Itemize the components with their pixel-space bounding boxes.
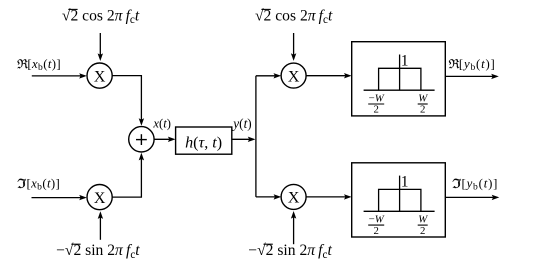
- svg-text:X: X: [94, 190, 106, 207]
- svg-text:X: X: [288, 68, 300, 85]
- wire hbox-to-junction: [232, 137, 256, 142]
- block lowpass-bottom: ideal lowpass, rect from -W/2 to W/2, height 1: [352, 163, 446, 237]
- svg-text:X: X: [288, 190, 300, 207]
- multiplier M3 (X) top-right: [281, 63, 306, 88]
- svg-text:−√2 sin 2π fct: −√2 sin 2π fct: [56, 242, 140, 261]
- wire carrier-sin-into-M4: [291, 211, 296, 244]
- svg-text:X: X: [94, 68, 106, 85]
- svg-text:h(τ, t): h(τ, t): [185, 135, 222, 152]
- wire carrier-sin-into-M2: [98, 211, 103, 240]
- adder (+): [129, 127, 154, 152]
- wire M4-to-filter: [306, 194, 352, 199]
- svg-text:[xb(t)]: [xb(t)]: [27, 177, 61, 193]
- wire junction vertical: [255, 76, 257, 197]
- wire M3-to-filter: [306, 73, 352, 78]
- svg-text:2: 2: [420, 104, 425, 116]
- svg-text:√2 cos 2π fct: √2 cos 2π fct: [255, 7, 333, 26]
- wire adder-to-hbox: [154, 137, 175, 142]
- wire Re-input-into-M1: [32, 73, 87, 78]
- multiplier M2 (X) bottom-left: [87, 185, 112, 210]
- svg-text:−√2 sin 2π fct: −√2 sin 2π fct: [248, 242, 332, 261]
- wire Im-input-into-M2: [32, 195, 87, 200]
- label Im-xb-input: [18, 177, 60, 193]
- svg-text:[xb(t)]: [xb(t)]: [27, 57, 61, 73]
- label y(t): [231, 116, 251, 131]
- label Im-yb-output: [453, 177, 499, 193]
- svg-text:y(t): y(t): [231, 116, 251, 131]
- svg-text:[yb(t)]: [yb(t)]: [459, 57, 496, 73]
- label sqrt2-sin-left: -sqrt(2) sin 2 pi fc t: [56, 242, 140, 261]
- wire junction-to-M3: [256, 73, 281, 78]
- svg-text:2: 2: [373, 104, 378, 116]
- wire M1-to-adder: [112, 76, 144, 126]
- wire M2-to-adder: [112, 153, 144, 197]
- wire carrier-cos-into-M3: [291, 33, 296, 61]
- label sqrt2-sin-right: -sqrt(2) sin 2 pi fc t: [248, 242, 332, 261]
- svg-text:2: 2: [420, 225, 425, 237]
- label Re-yb-output: [449, 57, 496, 73]
- wire carrier-cos-into-M1: [98, 33, 103, 61]
- wire junction-to-M4: [256, 194, 281, 199]
- label Re-xb-input: [17, 57, 61, 73]
- svg-text:x(t): x(t): [152, 116, 171, 130]
- label x(t): [152, 116, 171, 130]
- multiplier M1 (X) top-left: [87, 63, 112, 88]
- multiplier M4 (X) bottom-right: [281, 184, 306, 209]
- wire filter-bottom-output: [445, 195, 499, 200]
- svg-text:1: 1: [401, 174, 409, 191]
- svg-text:[yb(t)]: [yb(t)]: [462, 177, 499, 193]
- svg-text:2: 2: [373, 225, 378, 237]
- svg-text:√2 cos 2π fct: √2 cos 2π fct: [62, 7, 140, 26]
- block lowpass-top: ideal lowpass, rect from -W/2 to W/2, height 1: [352, 42, 446, 116]
- block h(tau,t): [176, 127, 232, 154]
- svg-text:1: 1: [401, 53, 409, 70]
- label sqrt2-cos-left: sqrt(2) cos 2 pi fc t: [62, 7, 140, 26]
- wire filter-top-output: [445, 74, 498, 79]
- label sqrt2-cos-right: sqrt(2) cos 2 pi fc t: [255, 7, 333, 26]
